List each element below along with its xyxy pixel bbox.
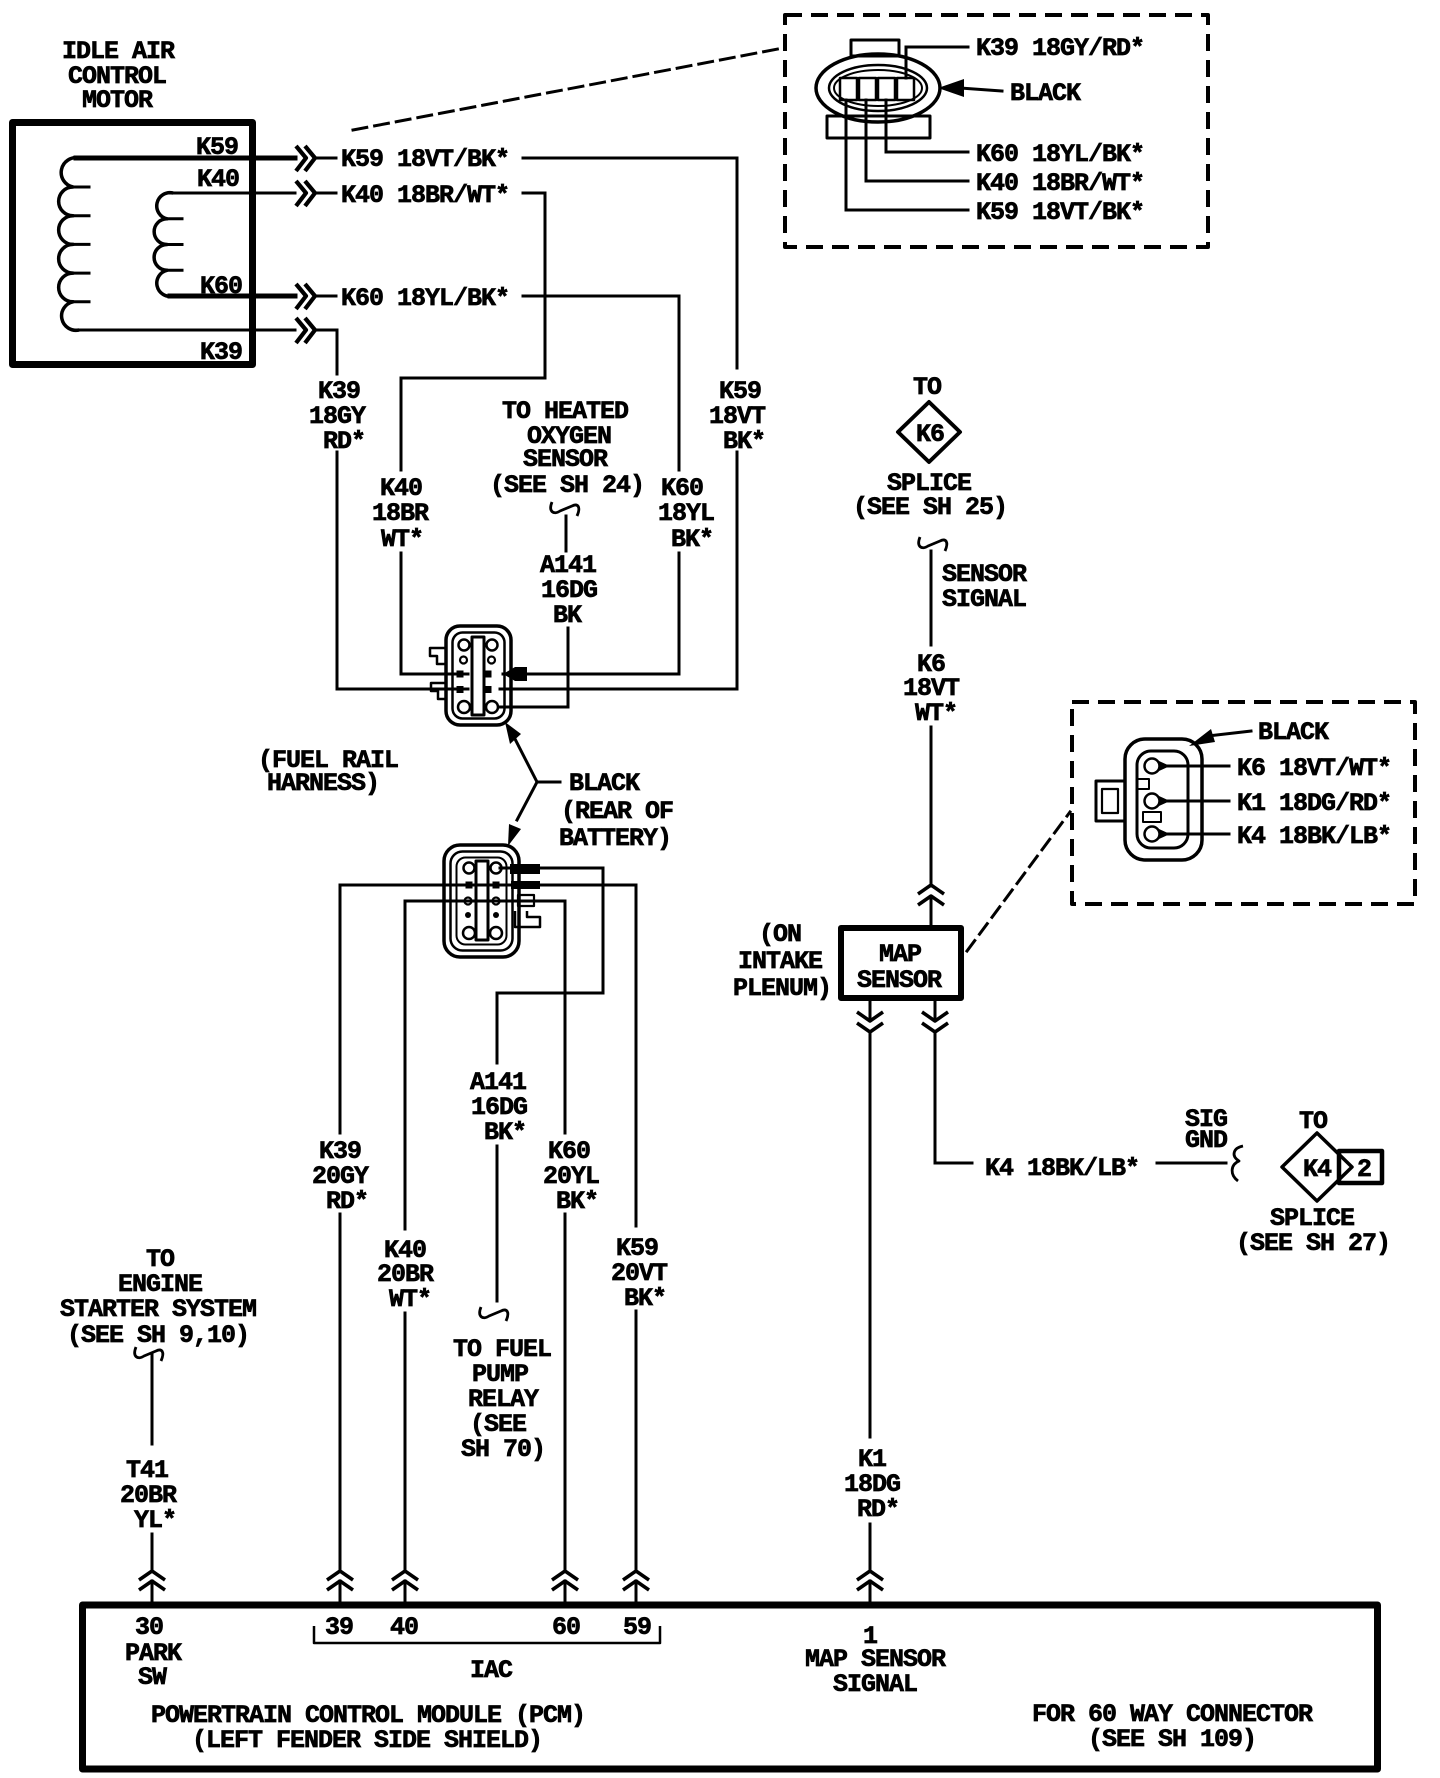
- svg-text:INTAKE: INTAKE: [738, 947, 822, 976]
- PCM pin 30 PARK SW: [125, 1613, 182, 1692]
- node: to heated oxygen sensor: [490, 397, 644, 500]
- label sensor signal: [942, 560, 1027, 614]
- svg-text:K39 18GY/RD*: K39 18GY/RD*: [976, 34, 1144, 63]
- wire label K39 18GY RD*: [309, 377, 366, 456]
- wire label K40 18BR/WT*: [317, 181, 509, 210]
- break chevrons at PCM pin 39: [327, 1571, 353, 1590]
- wire K6 upper stub: [930, 551, 933, 645]
- arrowhead to connector C1: [505, 722, 521, 744]
- svg-text:BLACK: BLACK: [1258, 718, 1329, 747]
- svg-text:RD*: RD*: [323, 427, 365, 456]
- wire K1 stub below MAP sensor: [869, 1001, 872, 1020]
- wire label K39 20GY RD*: [312, 1137, 369, 1216]
- svg-text:SENSOR: SENSOR: [857, 966, 942, 995]
- wire label K40 18BR WT* (vertical run): [372, 474, 429, 554]
- wire K4 vertical and jog right: [935, 1032, 972, 1163]
- pin lead K6 18VT/WT*: [1162, 754, 1391, 783]
- break chevrons at PCM pin 30: [139, 1571, 165, 1590]
- wire T41 stub into PCM: [151, 1581, 154, 1603]
- svg-text:K40 18BR/WT*: K40 18BR/WT*: [976, 169, 1144, 198]
- svg-text:SIGNAL: SIGNAL: [942, 585, 1026, 614]
- pin lead K59 18VT/BK*: [846, 100, 1144, 227]
- svg-text:K60 18YL/BK*: K60 18YL/BK*: [976, 140, 1144, 169]
- svg-text:IAC: IAC: [470, 1656, 513, 1685]
- coil L2 (IAC winding B): [154, 193, 182, 297]
- in-line connector C4 (rear of battery) body: [444, 845, 519, 957]
- connector C3 keyway marks: [1137, 779, 1161, 822]
- svg-text:(SEE SH 109): (SEE SH 109): [1088, 1725, 1256, 1754]
- pin lead K39 18GY/RD*: [906, 34, 1144, 78]
- wire K60 lead from coil L2 bottom: [170, 294, 295, 299]
- svg-text:K4 18BK/LB*: K4 18BK/LB*: [1237, 822, 1391, 851]
- node: to fuel pump relay: [453, 1335, 551, 1464]
- connector chevron K60: [296, 284, 315, 309]
- wire K40 vertical lower: [404, 1313, 407, 1571]
- wire T41 vertical lower: [151, 1534, 154, 1571]
- svg-text:(LEFT FENDER SIDE SHIELD): (LEFT FENDER SIDE SHIELD): [192, 1726, 542, 1755]
- svg-text:BK*: BK*: [484, 1118, 526, 1147]
- svg-text:K39: K39: [200, 338, 242, 367]
- connector chevron K59: [296, 146, 315, 171]
- wire label K60 18YL BK* (vertical run): [658, 474, 714, 554]
- wire A141 stub below squiggle: [565, 516, 568, 551]
- svg-text:40: 40: [390, 1613, 418, 1642]
- break chevrons at PCM pin 60: [552, 1571, 578, 1590]
- wire label K59 20VT BK*: [611, 1234, 668, 1313]
- svg-text:BK*: BK*: [723, 427, 765, 456]
- svg-text:30: 30: [135, 1613, 163, 1642]
- svg-text:K6 18VT/WT*: K6 18VT/WT*: [1237, 754, 1391, 783]
- arrowhead to connector C4: [508, 824, 521, 846]
- idle air control motor label: [62, 37, 175, 115]
- svg-text:RD*: RD*: [326, 1187, 368, 1216]
- break chevrons at PCM pin 1: [857, 1571, 883, 1590]
- wire label K60 20YL BK*: [543, 1137, 599, 1216]
- svg-text:39: 39: [325, 1613, 353, 1642]
- wire label K6 18VT WT*: [903, 650, 960, 728]
- connector C2 oval body: [816, 54, 940, 122]
- wire label K59 18VT/BK*: [317, 145, 509, 174]
- svg-text:SENSOR: SENSOR: [523, 445, 608, 474]
- wire K60 20YL/BK* vertical to PCM: [564, 901, 567, 1133]
- splice symbol K6: [898, 402, 960, 462]
- pin lead K4 18BK/LB*: [1162, 822, 1391, 851]
- wire K60 stub into PCM: [564, 1581, 567, 1603]
- svg-text:K40: K40: [197, 165, 239, 194]
- wire A141 vertical lower: [496, 1146, 499, 1301]
- svg-text:TO: TO: [913, 373, 942, 402]
- wire label K60 18YL/BK*: [317, 284, 509, 313]
- wire K60 vertical lower: [564, 1214, 567, 1571]
- idle air control motor box: [13, 123, 253, 365]
- svg-text:BK*: BK*: [556, 1187, 598, 1216]
- wire label T41 20BR YL*: [120, 1456, 177, 1535]
- wire K39 lead from coil L1 bottom: [76, 329, 295, 332]
- pigtail squiggle to engine starter system: [135, 1347, 163, 1361]
- connector C2 latch tab: [851, 40, 899, 56]
- break chevrons at PCM pin 59: [623, 1571, 649, 1590]
- wire K59 vertical run lower: [500, 452, 737, 689]
- svg-text:(REAR OF: (REAR OF: [561, 797, 673, 826]
- wire K59 20VT/BK* vertical to PCM: [635, 885, 638, 1226]
- break chevrons on wire K1: [857, 1012, 883, 1032]
- dashed leader to connector C2 detail: [353, 48, 783, 130]
- splice K4 caption: [1236, 1204, 1390, 1258]
- pigtail squiggle to heated O2 sensor: [551, 502, 579, 516]
- connector C3 terminal pins: [1145, 759, 1171, 842]
- pigtail squiggle from K6 splice: [919, 537, 947, 551]
- connector C1 cavity pins: [457, 640, 499, 714]
- connector chevron K40: [296, 181, 315, 206]
- MAP sensor box: [841, 928, 961, 998]
- wire K39 vertical to PCM: [339, 885, 342, 1133]
- powertrain control module (PCM) box: [83, 1605, 1378, 1769]
- svg-text:STARTER SYSTEM: STARTER SYSTEM: [60, 1295, 256, 1324]
- connector C3 body: [1125, 739, 1202, 860]
- arrowhead BLACK on connector C2: [938, 79, 1081, 108]
- svg-text:BLACK: BLACK: [1010, 79, 1081, 108]
- svg-text:PLENUM): PLENUM): [733, 974, 831, 1003]
- wire K60 horizontal and vertical run: [523, 296, 679, 470]
- dashed detail box for connector C2 (IAC connector): [785, 15, 1208, 247]
- svg-text:(SEE SH 25): (SEE SH 25): [853, 493, 1007, 522]
- wire K6 vertical lower: [930, 727, 933, 886]
- wire K40 jog to vertical: [401, 193, 545, 470]
- wire K40 20BR/WT* through connector C4 row3: [405, 900, 565, 903]
- svg-text:GND: GND: [1185, 1126, 1228, 1155]
- in-line connector C1 (fuel rail harness) body: [446, 626, 511, 725]
- pin lead K1 18DG/RD*: [1162, 789, 1391, 818]
- wire K40 vertical run lower: [401, 553, 468, 674]
- label (on intake plenum): [733, 920, 831, 1003]
- svg-text:60: 60: [552, 1613, 580, 1642]
- leader fork to BLACK label: [514, 737, 560, 820]
- svg-text:SW: SW: [138, 1663, 167, 1692]
- svg-text:(SEE SH 24): (SEE SH 24): [490, 471, 644, 500]
- svg-text:RD*: RD*: [857, 1495, 899, 1524]
- wire A141 vertical into connector C1: [499, 628, 568, 707]
- label BLACK (rear of battery): [559, 769, 673, 853]
- wire K39 stub into PCM: [339, 1581, 342, 1603]
- break chevrons at PCM pin 40: [392, 1571, 418, 1590]
- svg-text:BLACK: BLACK: [569, 769, 640, 798]
- PCM caption: [151, 1701, 585, 1755]
- wire label K40 20BR WT*: [377, 1236, 434, 1314]
- connector C4 right terminal blocks and clips: [510, 864, 540, 927]
- wire K6 stub into MAP sensor: [930, 897, 933, 925]
- svg-text:TO: TO: [1299, 1107, 1328, 1136]
- svg-text:K59 18VT/BK*: K59 18VT/BK*: [341, 145, 509, 174]
- wire K1 vertical run: [869, 1032, 872, 1437]
- connector C1 left lock clips: [430, 648, 446, 699]
- svg-text:MAP: MAP: [879, 940, 921, 969]
- wire K4 stub below MAP sensor: [934, 1001, 937, 1020]
- connector C3 left lock tab: [1096, 781, 1125, 821]
- wire K39 vertical lower: [339, 1214, 342, 1571]
- svg-text:BATTERY): BATTERY): [559, 824, 671, 853]
- wire K39 vertical run lower: [337, 452, 468, 689]
- svg-text:K59 18VT/BK*: K59 18VT/BK*: [976, 198, 1144, 227]
- wire K1 stub into PCM: [869, 1581, 872, 1603]
- wire K59 lead from coil L1 top: [76, 156, 295, 161]
- svg-text:BK*: BK*: [624, 1284, 666, 1313]
- svg-text:SIGNAL: SIGNAL: [833, 1670, 917, 1699]
- wire T41 upper stub: [151, 1355, 154, 1444]
- label SIG GND: [1185, 1105, 1228, 1155]
- wire K60 vertical run lower: [503, 553, 679, 674]
- svg-text:18YL: 18YL: [658, 499, 714, 528]
- dashed leader to connector C3 detail: [967, 812, 1070, 951]
- svg-text:18BR: 18BR: [372, 499, 429, 528]
- svg-text:BK*: BK*: [671, 525, 713, 554]
- coil L1 (IAC winding A): [59, 158, 89, 331]
- wire K40 stub into PCM: [404, 1581, 407, 1603]
- svg-text:SH 70): SH 70): [461, 1435, 545, 1464]
- wire K59 18VT/BK* horizontal run: [523, 157, 737, 160]
- wire label K1 18DG RD*: [844, 1445, 900, 1524]
- wire K39 20GY/RD* through connector C4 row2: [340, 884, 636, 887]
- IAC pin group bracket: [314, 1626, 660, 1685]
- svg-text:(SEE SH 27): (SEE SH 27): [1236, 1229, 1390, 1258]
- PCM pin 1 MAP sensor signal: [805, 1622, 946, 1699]
- svg-text:K60 18YL/BK*: K60 18YL/BK*: [341, 284, 509, 313]
- wire K1 vertical lower: [869, 1524, 872, 1571]
- wire label K59 18VT BK* (vertical run): [709, 377, 766, 456]
- splice symbol K4 with circuit 2 box: [1282, 1133, 1382, 1201]
- pigtail squiggle at K4 splice: [1232, 1146, 1243, 1181]
- svg-text:K40 18BR/WT*: K40 18BR/WT*: [341, 181, 509, 210]
- svg-text:K4 18BK/LB*: K4 18BK/LB*: [985, 1154, 1139, 1183]
- PCM 60-way note: [1032, 1700, 1313, 1754]
- svg-text:MOTOR: MOTOR: [82, 86, 153, 115]
- break chevrons on wire K6: [918, 885, 944, 905]
- svg-text:K6: K6: [916, 420, 944, 449]
- wire K4 horizontal run to splice: [1157, 1162, 1226, 1165]
- wire K40 lead from coil L2 top: [170, 192, 295, 195]
- wire label A141 16DG BK: [540, 551, 597, 630]
- svg-text:2: 2: [1357, 1155, 1371, 1184]
- wire K59 stub into PCM: [635, 1581, 638, 1603]
- svg-text:WT*: WT*: [381, 525, 423, 554]
- wire label A141 16DG BK*: [470, 1068, 527, 1147]
- svg-text:BK: BK: [553, 601, 582, 630]
- arrowhead BLACK on connector C3: [1189, 718, 1329, 747]
- wire K59 vertical run upper: [736, 158, 739, 368]
- connector chevron K39: [296, 318, 315, 343]
- svg-text:59: 59: [623, 1613, 651, 1642]
- break chevrons on wire K4: [922, 1012, 948, 1032]
- label (fuel rail harness): [258, 746, 398, 798]
- svg-text:YL*: YL*: [134, 1506, 176, 1535]
- wire K40 vertical to PCM: [404, 901, 407, 1229]
- svg-text:WT*: WT*: [389, 1285, 431, 1314]
- wire A141 16DG/BK* from connector C4 row1: [497, 868, 603, 1063]
- connector C2 terminals (4 pins): [840, 78, 914, 100]
- svg-text:K4: K4: [1303, 1155, 1332, 1184]
- node: to engine starter system: [60, 1245, 256, 1350]
- wire K59 vertical lower: [635, 1311, 638, 1571]
- connector C4 cavity pins: [463, 863, 502, 940]
- pin lead K40 18BR/WT*: [866, 100, 1144, 198]
- dashed detail box for connector C3 (MAP sensor connector): [1072, 702, 1415, 904]
- connector C2 base: [827, 116, 930, 138]
- pigtail squiggle to fuel pump relay: [480, 1307, 508, 1321]
- connector C1 terminal arrow (row 3 right): [503, 667, 527, 681]
- wire K39 vertical run upper: [317, 330, 337, 374]
- svg-text:WT*: WT*: [915, 699, 957, 728]
- svg-text:HARNESS): HARNESS): [267, 769, 379, 798]
- svg-text:(ON: (ON: [759, 920, 801, 949]
- svg-text:K1 18DG/RD*: K1 18DG/RD*: [1237, 789, 1391, 818]
- splice K6 caption: [853, 469, 1007, 522]
- svg-text:(SEE SH 9,10): (SEE SH 9,10): [67, 1321, 249, 1350]
- pin lead K60 18YL/BK*: [886, 100, 1144, 169]
